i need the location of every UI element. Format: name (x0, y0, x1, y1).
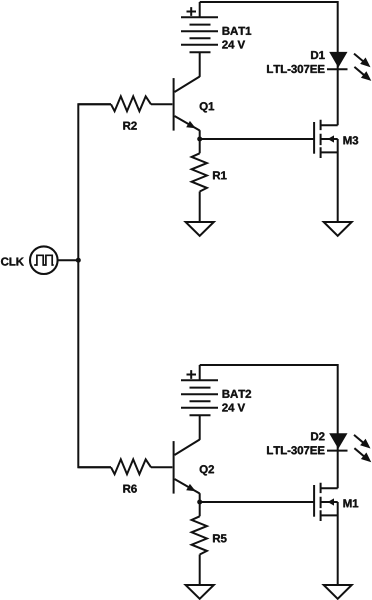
wire (337, 139, 339, 222)
label R2 (123, 122, 136, 130)
junction emitter node (197, 137, 202, 142)
wire CLK bus (78, 104, 111, 467)
wire (200, 365, 338, 488)
label Q1 (200, 102, 214, 112)
wire (199, 130, 201, 139)
battery BAT1 (181, 2, 218, 52)
resistor R2 (111, 96, 151, 111)
LED D1 (327, 52, 371, 81)
transistor Q1 (174, 77, 200, 131)
label LTL-307EE (267, 65, 324, 73)
junction emitter node (197, 500, 202, 505)
wire (151, 103, 172, 105)
wire (151, 466, 172, 468)
resistor R6 (111, 459, 151, 474)
label LTL-307EE (267, 446, 324, 454)
wire (199, 415, 201, 440)
label D2 (311, 432, 324, 440)
label BAT1 (223, 27, 252, 35)
label R6 (123, 485, 136, 493)
label M3 (343, 136, 358, 144)
label D1 (311, 51, 325, 59)
junction node CLK (76, 258, 81, 263)
wire (78, 103, 111, 105)
wire (337, 502, 339, 585)
resistor R5 (192, 516, 207, 554)
MOSFET M3 (314, 120, 338, 158)
ground (324, 585, 352, 599)
wire (199, 502, 201, 516)
MOSFET M1 (314, 483, 338, 521)
wire (199, 493, 201, 502)
label Q2 (200, 465, 214, 475)
wire (199, 192, 201, 222)
battery BAT2 (181, 365, 218, 415)
resistor R1 (192, 153, 207, 191)
ground (186, 222, 214, 236)
wire (200, 501, 314, 503)
transistor Q2 (174, 440, 200, 494)
label BAT2 (223, 390, 252, 398)
LED D2 (327, 433, 371, 462)
label M1 (343, 499, 358, 507)
wire (57, 259, 78, 261)
ground (324, 222, 352, 236)
wire (78, 466, 111, 468)
wire (200, 138, 314, 140)
wire (199, 555, 201, 585)
voltage source CLK (30, 246, 58, 274)
label R1 (213, 171, 227, 179)
wire (199, 139, 201, 153)
label CLK (1, 257, 24, 265)
label 24 V (222, 40, 245, 48)
label R5 (213, 534, 227, 542)
wire (200, 2, 338, 125)
wire (199, 52, 201, 77)
label 24 V (222, 403, 245, 411)
ground (186, 585, 214, 599)
